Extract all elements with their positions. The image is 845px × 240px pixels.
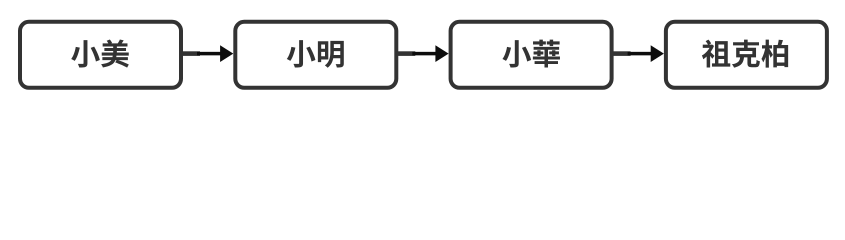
label text 小美 <box>71 39 129 67</box>
label text 小明 <box>287 40 344 68</box>
arrowhead 1 <box>220 45 233 62</box>
wire: connector stub 2 <box>396 51 415 56</box>
wire: connector stub 3 <box>612 51 631 56</box>
wire: arrow shaft 2 <box>412 52 437 56</box>
node box1: rounded rectangle 小美 <box>20 22 181 88</box>
wire: arrow shaft 3 <box>628 52 653 56</box>
wire: arrow shaft 1 <box>197 52 222 56</box>
wire: connector stub 1 <box>181 51 200 56</box>
label text 祖克柏 <box>702 40 788 68</box>
arrowhead 3 <box>651 45 664 62</box>
label text 小華 <box>502 40 559 68</box>
arrowhead 2 <box>435 45 448 62</box>
node box2: rounded rectangle 小明 <box>235 22 396 88</box>
node box3: rounded rectangle 小華 <box>451 22 612 88</box>
node box4: rounded rectangle 祖克柏 <box>666 22 827 88</box>
